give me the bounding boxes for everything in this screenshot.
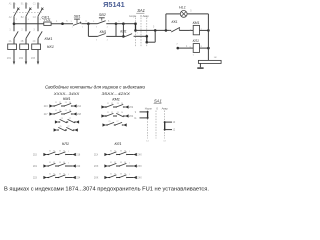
svg-text:34: 34 [63, 173, 65, 175]
svg-text:25: 25 [61, 118, 63, 120]
SA1 position line Норм [135, 18, 137, 47]
relay contact KL1 (emergency path) [122, 24, 124, 37]
svg-text:23: 23 [117, 112, 119, 114]
svg-text:25: 25 [60, 126, 62, 128]
node SB2 branch right [115, 22, 118, 25]
svg-text:2ХХ: 2ХХ [137, 166, 142, 168]
svg-text:КМ1: КМ1 [112, 98, 120, 102]
node KL1 branch [122, 22, 125, 25]
svg-text:1Л2: 1Л2 [19, 57, 24, 60]
svg-text:24: 24 [121, 103, 123, 105]
svg-text:5: 5 [129, 162, 130, 164]
KM1 free contact row 3 (right group) [103, 123, 106, 126]
wire Авар loop [147, 41, 155, 43]
svg-text:31: 31 [110, 162, 112, 164]
svg-text:32: 32 [114, 162, 116, 164]
svg-text:33: 33 [59, 150, 61, 152]
svg-text:КЛ1: КЛ1 [115, 142, 122, 146]
node SB2 branch left [87, 22, 90, 25]
svg-text:Авар: Авар [162, 106, 169, 110]
svg-text:32: 32 [53, 162, 55, 164]
svg-text:Я5141: Я5141 [103, 2, 125, 9]
svg-text:2Х4: 2Х4 [129, 116, 134, 118]
KM1 free contact row 3 (left group) [55, 120, 58, 123]
svg-text:зм: зм [214, 57, 217, 59]
signal lamp HL1 [165, 14, 167, 31]
svg-text:31: 31 [49, 173, 51, 175]
svg-text:2ХХ: 2ХХ [94, 166, 99, 168]
svg-text:21: 21 [107, 103, 109, 105]
svg-text:HL1: HL1 [179, 5, 186, 9]
wire main control line [14, 23, 44, 25]
svg-text:22: 22 [111, 103, 113, 105]
svg-text:2Х2: 2Х2 [129, 107, 134, 109]
thermal relay KK1 heaters [8, 44, 17, 50]
svg-text:SA1: SA1 [154, 99, 162, 104]
svg-text:Норм: Норм [145, 106, 152, 110]
SA1 position line 0 (lower) [155, 111, 157, 139]
SA1 lower bar Норм [147, 112, 149, 118]
svg-text:КК1: КК1 [172, 20, 178, 24]
fuse FU1 [44, 22, 51, 25]
svg-text:SA1: SA1 [137, 8, 145, 13]
svg-text:22: 22 [111, 112, 113, 114]
svg-text:24: 24 [69, 102, 71, 104]
svg-text:24: 24 [121, 112, 123, 114]
svg-text:32: 32 [114, 173, 116, 175]
svg-text:Авар: Авар [143, 14, 150, 18]
svg-text:2ХХ: 2ХХ [94, 178, 99, 180]
svg-text:32: 32 [53, 173, 55, 175]
terminal strip [198, 60, 221, 63]
svg-text:2С: 2С [33, 41, 36, 43]
KM1 free contact row 4 (left group) [54, 128, 57, 131]
svg-text:Свободные контакты для ящиков: Свободные контакты для ящиков с индексам… [45, 84, 146, 89]
svg-text:27: 27 [116, 121, 118, 123]
svg-text:2В: 2В [21, 41, 24, 43]
svg-text:33: 33 [120, 173, 122, 175]
svg-text:FU1: FU1 [44, 18, 51, 22]
svg-text:21: 21 [107, 112, 109, 114]
svg-text:2ХХ: 2ХХ [137, 178, 142, 180]
svg-text:32: 32 [53, 150, 55, 152]
svg-text:32: 32 [114, 150, 116, 152]
SA1 position line Норм (lower) [147, 111, 149, 139]
svg-text:КМ1: КМ1 [100, 30, 107, 34]
svg-text:24: 24 [69, 110, 71, 112]
svg-text:23: 23 [117, 103, 119, 105]
svg-text:КЛ1: КЛ1 [62, 142, 69, 146]
svg-text:В ящиках с индексами 1874...30: В ящиках с индексами 1874...3074 предохр… [4, 186, 209, 192]
contactor main contacts KM1 [14, 31, 18, 38]
svg-text:23: 23 [65, 102, 67, 104]
svg-text:5: 5 [68, 174, 69, 176]
svg-text:2А: 2А [9, 40, 12, 43]
svg-text:SB1: SB1 [74, 14, 81, 18]
svg-text:SB2: SB2 [99, 13, 106, 17]
circuit breaker QF1 [14, 9, 18, 16]
SA1 position line Авар [146, 18, 148, 47]
svg-text:КЛ1: КЛ1 [120, 29, 126, 33]
svg-text:34: 34 [63, 150, 65, 152]
SA1 contact bar (Норм) [135, 24, 137, 31]
svg-text:34: 34 [63, 162, 65, 164]
svg-text:33: 33 [59, 173, 61, 175]
ground stub [199, 63, 201, 67]
svg-text:27: 27 [69, 118, 71, 120]
SA1 position line 0 [140, 18, 142, 47]
svg-text:5: 5 [68, 162, 69, 164]
svg-text:31: 31 [49, 162, 51, 164]
svg-text:1Л1: 1Л1 [7, 57, 12, 60]
svg-text:КМ1: КМ1 [193, 21, 200, 25]
svg-text:КК1: КК1 [47, 44, 54, 49]
svg-text:21: 21 [55, 110, 57, 112]
svg-text:23: 23 [65, 110, 67, 112]
svg-text:35ХХ...42ХХ: 35ХХ...42ХХ [102, 92, 131, 96]
svg-text:25: 25 [108, 121, 110, 123]
svg-text:34: 34 [124, 173, 126, 175]
svg-text:22: 22 [59, 110, 61, 112]
svg-text:21: 21 [55, 102, 57, 104]
svg-text:КМ1: КМ1 [45, 36, 53, 41]
svg-text:1Л3: 1Л3 [31, 57, 36, 60]
SA1 lower bar Авар [164, 122, 166, 130]
svg-text:34: 34 [124, 162, 126, 164]
right rail [207, 14, 209, 61]
svg-text:27: 27 [68, 126, 70, 128]
svg-text:33: 33 [120, 162, 122, 164]
svg-text:21Х: 21Х [94, 155, 99, 157]
svg-text:КЛ1: КЛ1 [193, 39, 199, 43]
svg-text:31: 31 [110, 150, 112, 152]
junction node [61, 22, 64, 25]
svg-text:ХХХХ...34ХХ: ХХХХ...34ХХ [53, 92, 80, 96]
svg-text:33: 33 [59, 162, 61, 164]
svg-text:5: 5 [129, 174, 130, 176]
svg-text:33: 33 [120, 150, 122, 152]
wire SA1 output row [136, 29, 170, 31]
SA1 position line Авар (lower) [164, 111, 166, 139]
svg-text:34: 34 [124, 150, 126, 152]
svg-text:5: 5 [68, 151, 69, 153]
svg-text:Норм: Норм [129, 14, 136, 18]
svg-text:5: 5 [129, 151, 130, 153]
node on phase A [13, 22, 16, 25]
svg-text:31: 31 [49, 150, 51, 152]
svg-text:2ХХ: 2ХХ [137, 155, 142, 157]
SA1 contact bar (Авар) [146, 36, 148, 42]
svg-text:31: 31 [110, 173, 112, 175]
auxiliary contact KM1 (parallel with SB2) [87, 24, 89, 37]
svg-text:КМ1: КМ1 [63, 97, 71, 101]
svg-text:22: 22 [59, 102, 61, 104]
